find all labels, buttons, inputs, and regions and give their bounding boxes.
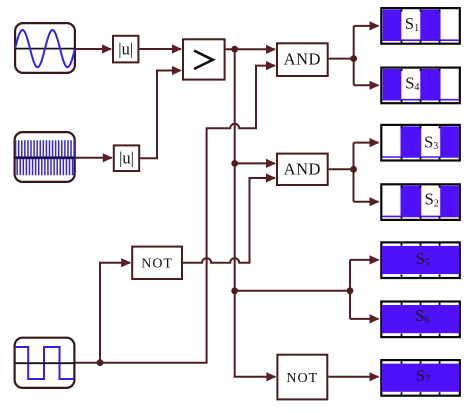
wire AND1 output to S1 and S4 <box>329 21 380 90</box>
AND gate block AND1 <box>277 43 328 76</box>
pulse display block S2 <box>381 184 460 220</box>
svg-text:|u|: |u| <box>119 148 134 167</box>
wire NOT1 output to AND2 lower input (hops over two verticals) <box>183 173 276 262</box>
wire sine to abs U1 <box>76 44 112 53</box>
AND gate block AND2 <box>277 154 328 185</box>
wire bus branch to S5 and S6 <box>235 255 380 323</box>
svg-text:NOT: NOT <box>286 371 318 386</box>
comparator block > <box>183 39 225 79</box>
wire carrier to abs U2 <box>76 153 113 162</box>
inverter block NOT2 <box>277 355 327 400</box>
svg-text:NOT: NOT <box>141 256 173 271</box>
square-wave source block <box>15 338 75 388</box>
pulse display block S3 <box>381 125 460 161</box>
pulse display block S4 <box>381 68 460 104</box>
wire AND2 output to S3 and S2 <box>329 138 380 206</box>
wire U2 up to comparator lower input <box>140 66 182 158</box>
pulse display block S1 <box>381 8 460 44</box>
junction node S5/S6 split <box>347 287 354 294</box>
wire square-wave output with branch node <box>76 61 277 363</box>
junction node at S5/S6 branch <box>231 287 238 294</box>
svg-text:AND: AND <box>284 50 321 69</box>
wire branch to AND2 upper input <box>235 159 276 168</box>
junction node at AND2 branch <box>231 160 238 167</box>
abs block U1 |u| <box>113 36 138 63</box>
inverter block NOT1 <box>132 247 182 279</box>
junction node square-wave branch <box>97 359 104 366</box>
svg-text:|u|: |u| <box>118 39 133 58</box>
triangular carrier source block <box>15 132 75 182</box>
wire U1 to comparator <box>139 44 182 53</box>
junction node AND1 output <box>350 55 357 62</box>
pulse display block S5 <box>381 242 460 278</box>
junction node comparator output <box>231 46 238 53</box>
pulse display block S6 <box>381 302 460 338</box>
junction node AND2 output <box>350 166 357 173</box>
wire NOT2 output to S7 <box>328 372 379 381</box>
abs block U2 |u| <box>114 145 139 171</box>
svg-text:AND: AND <box>284 159 321 178</box>
wire comparator bus down (to AND2 / S5-S6 / NOT2) <box>235 49 277 381</box>
pulse display block S7 <box>381 360 460 396</box>
sine reference source block <box>15 23 75 73</box>
wire comparator output to AND1 <box>226 45 276 54</box>
wire branch up to NOT1 input <box>100 258 131 363</box>
